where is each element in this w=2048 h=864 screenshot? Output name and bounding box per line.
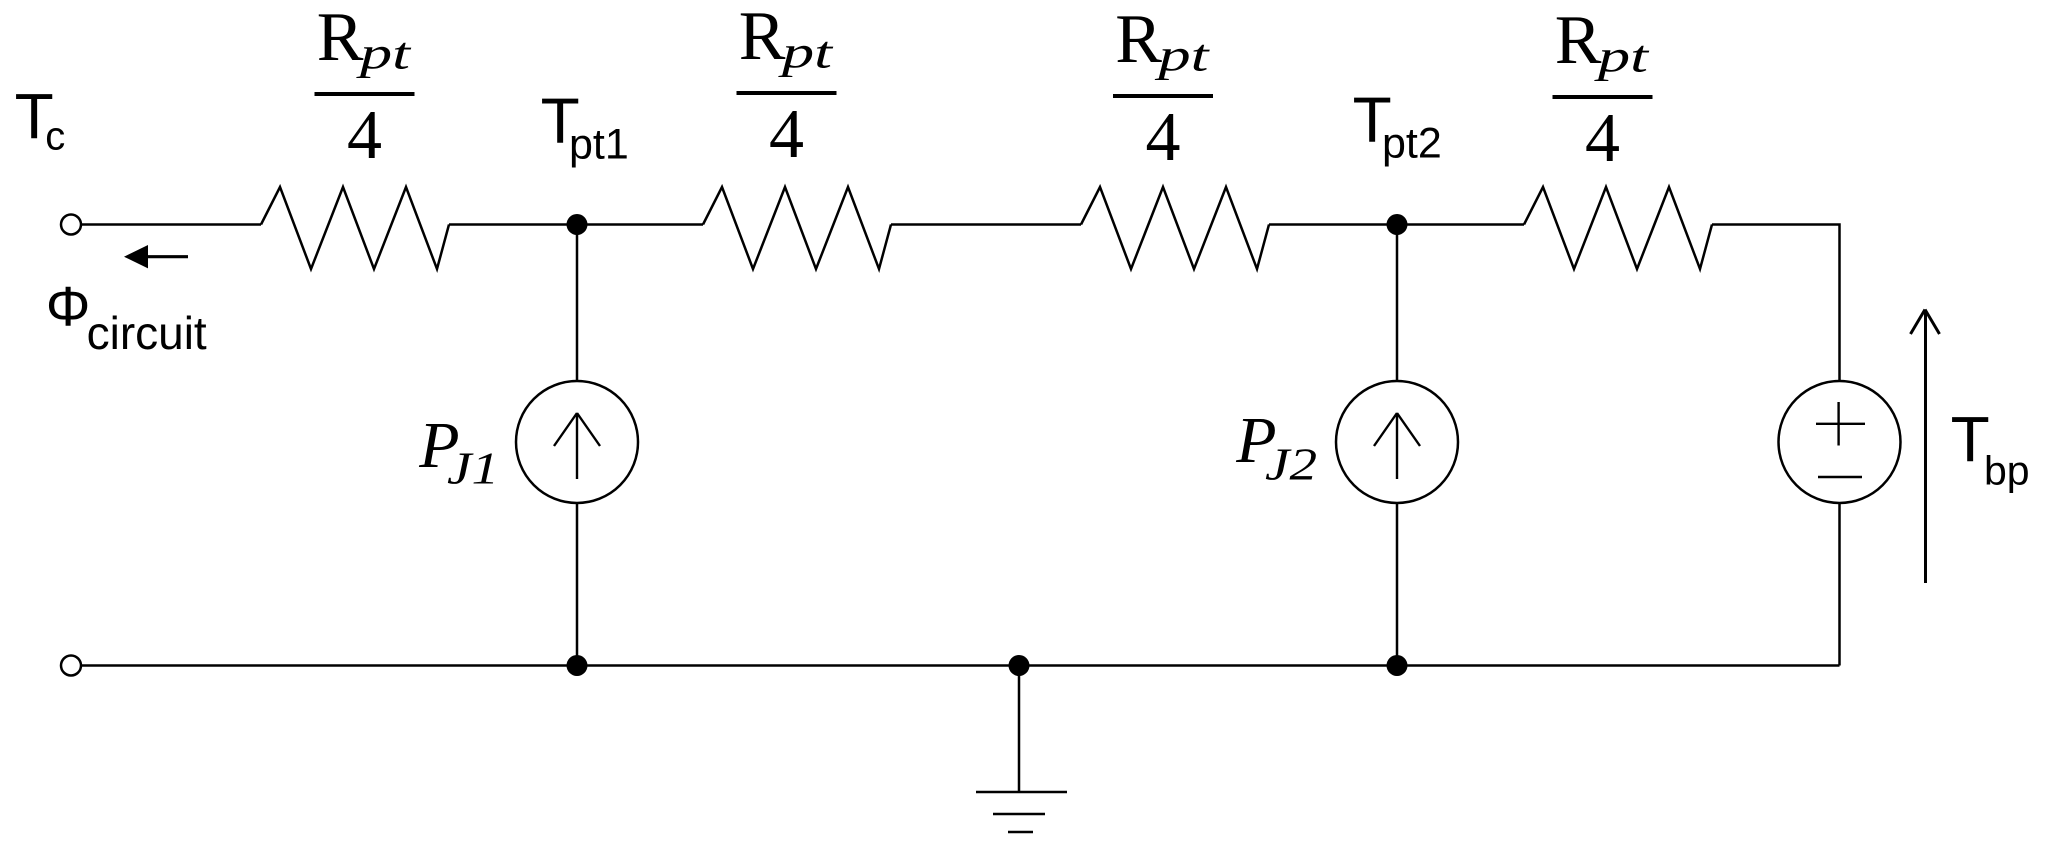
svg-text:R: R — [739, 0, 786, 75]
plus sign in voltage source — [1816, 402, 1865, 446]
terminal circle top left — [61, 215, 81, 235]
left arrow for phi_circuit — [124, 245, 188, 268]
svg-text:R: R — [1115, 1, 1162, 78]
wire bottom rail — [81, 664, 1840, 667]
up arrow for T_bp — [1911, 310, 1940, 584]
label T_pt1 — [541, 85, 629, 169]
current source P_J1 circle — [516, 381, 638, 503]
svg-text:pt: pt — [1594, 32, 1650, 82]
resistor R_pt/4 (second) — [703, 187, 891, 269]
svg-text:R: R — [317, 0, 364, 76]
wire node Tpt1 down to current source PJ1 — [576, 225, 579, 382]
label R_pt/4 fraction (fourth) — [1553, 2, 1653, 177]
svg-text:pt: pt — [1154, 31, 1210, 81]
svg-text:4: 4 — [1585, 100, 1620, 177]
ground bar 3 — [1008, 831, 1033, 834]
svg-text:J1: J1 — [447, 443, 499, 494]
current source P_J2 circle — [1336, 381, 1458, 503]
resistor R_pt/4 (third) — [1081, 187, 1269, 269]
node dot bottom below PJ2 — [1387, 655, 1408, 676]
voltage source T_bp circle — [1779, 381, 1901, 503]
resistor R_pt/4 (first) — [261, 187, 449, 269]
node dot Tpt1 — [567, 214, 588, 235]
arrow inside current source PJ1 — [554, 413, 600, 479]
svg-text:4: 4 — [1146, 99, 1181, 176]
label R_pt/4 fraction (second) — [737, 0, 837, 173]
label P_J2 — [1235, 404, 1317, 490]
node dot Tpt2 — [1387, 214, 1408, 235]
wire top: R2 to R3 — [891, 223, 1081, 226]
arrow inside current source PJ2 — [1374, 413, 1420, 479]
wire top: R3 to R4 through node Tpt2 — [1269, 223, 1524, 226]
svg-text:Φ: Φ — [46, 275, 91, 338]
wire current source PJ2 to bottom rail — [1396, 503, 1399, 666]
label Phi_circuit — [46, 275, 207, 360]
minus sign in voltage source — [1818, 476, 1862, 478]
resistor R_pt/4 (fourth) — [1524, 187, 1712, 269]
label R_pt/4 fraction (third) — [1113, 1, 1213, 176]
wire top: R1 to R2 through node Tpt1 — [449, 223, 703, 226]
wire top: left terminal to R1 — [81, 223, 261, 226]
svg-text:J2: J2 — [1265, 439, 1317, 490]
wire top right corner down to voltage source — [1712, 225, 1840, 382]
svg-text:R: R — [1555, 2, 1602, 79]
svg-text:pt: pt — [778, 28, 834, 78]
ground bar 2 — [993, 813, 1045, 816]
wire node Tpt2 down to current source PJ2 — [1396, 225, 1399, 382]
label P_J1 — [418, 409, 499, 494]
svg-text:circuit: circuit — [87, 307, 207, 359]
label T_pt2 — [1353, 84, 1442, 168]
label T_bp — [1951, 403, 2030, 494]
svg-text:4: 4 — [347, 97, 382, 174]
label T_c — [15, 80, 66, 159]
ground bar 1 — [976, 791, 1067, 794]
ground stem — [1018, 666, 1021, 793]
svg-text:c: c — [45, 115, 65, 159]
terminal circle bottom left — [61, 656, 81, 676]
svg-text:bp: bp — [1984, 448, 2030, 494]
node dot bottom below PJ1 — [567, 655, 588, 676]
wire voltage source bottom to bottom rail — [1838, 503, 1841, 666]
svg-text:pt2: pt2 — [1382, 120, 1442, 168]
svg-text:pt1: pt1 — [569, 121, 629, 169]
label R_pt/4 fraction (first) — [315, 0, 415, 174]
svg-text:pt: pt — [356, 29, 412, 79]
wire current source PJ1 to bottom rail — [576, 503, 579, 666]
svg-text:4: 4 — [769, 96, 804, 173]
node dot bottom ground — [1009, 655, 1030, 676]
